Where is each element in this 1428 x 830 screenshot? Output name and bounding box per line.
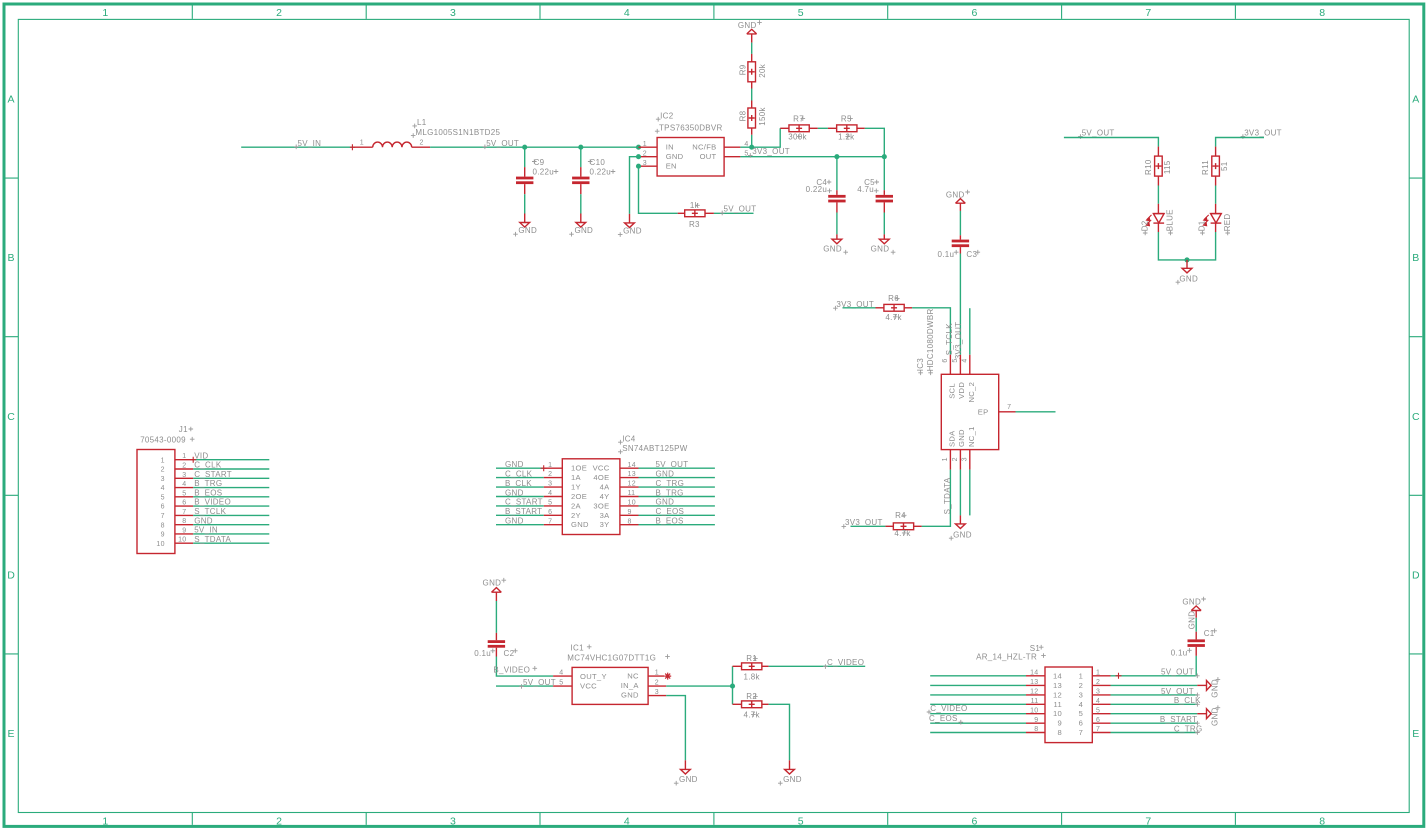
svg-text:6: 6 bbox=[1079, 719, 1084, 728]
svg-text:14: 14 bbox=[1053, 671, 1062, 680]
svg-text:L1: L1 bbox=[417, 118, 427, 127]
svg-text:C: C bbox=[7, 411, 15, 423]
svg-text:4: 4 bbox=[182, 481, 186, 488]
wire D2 to gnd junction bbox=[1158, 232, 1187, 260]
IC4 value SN74ABT125PW bbox=[618, 444, 688, 454]
svg-text:GND: GND bbox=[571, 520, 589, 529]
C4 name label bbox=[816, 178, 831, 187]
R6 value 4.7k bbox=[885, 313, 902, 322]
IC1 value MC74VHC1G07DTT1G bbox=[567, 653, 670, 662]
S1 pin 1 connection cross bbox=[1116, 673, 1122, 679]
svg-text:GND: GND bbox=[621, 691, 639, 700]
svg-text:GND: GND bbox=[1210, 707, 1219, 726]
svg-text:6: 6 bbox=[182, 500, 186, 507]
svg-text:5: 5 bbox=[952, 358, 959, 362]
svg-text:5V_OUT: 5V_OUT bbox=[1082, 128, 1115, 137]
ground below IC3 pin 2 bbox=[949, 515, 972, 540]
wire S1 pin 2 to ground bbox=[1111, 684, 1198, 686]
D2 name label rotated bbox=[1140, 220, 1149, 235]
svg-text:B_EOS: B_EOS bbox=[194, 488, 222, 497]
frame column labels bottom bbox=[102, 815, 1325, 827]
svg-text:1: 1 bbox=[360, 140, 364, 147]
wire S1 left pin 11 bbox=[930, 703, 1026, 705]
svg-text:S_TDATA: S_TDATA bbox=[194, 535, 231, 544]
svg-text:2: 2 bbox=[276, 815, 282, 827]
svg-text:5V_OUT: 5V_OUT bbox=[1161, 687, 1194, 696]
LED D2 bbox=[1146, 204, 1164, 232]
svg-text:0.22u: 0.22u bbox=[533, 168, 555, 177]
ground below IC1 bbox=[674, 760, 698, 785]
svg-text:NC/FB: NC/FB bbox=[692, 143, 716, 152]
svg-text:8: 8 bbox=[182, 518, 186, 525]
resistor R1 1.8k bbox=[733, 663, 769, 670]
wire IC4 left pin 6 net B_START bbox=[496, 514, 544, 516]
IC3 pin numbers top 6 5 4 bbox=[942, 358, 968, 362]
svg-text:1: 1 bbox=[548, 462, 552, 469]
resistor R11 51 bbox=[1212, 147, 1220, 186]
resistor R8 150k bbox=[748, 101, 756, 135]
wire R11 to D1 bbox=[1215, 186, 1217, 204]
node 5V_OUT label top right bbox=[1078, 128, 1115, 139]
wire S1 left pin 14 bbox=[930, 675, 1026, 677]
frame row ticks right bbox=[1409, 178, 1422, 654]
svg-text:7: 7 bbox=[1096, 726, 1100, 733]
junction R8 / IC2 pin4 bbox=[749, 145, 754, 150]
S1 pin stubs left bbox=[1026, 676, 1045, 733]
wire 3V3_OUT to R11 bbox=[1216, 138, 1264, 147]
svg-text:4: 4 bbox=[559, 670, 563, 677]
wire S1 left pin 9 bbox=[930, 722, 1026, 724]
svg-text:VDD: VDD bbox=[957, 382, 966, 399]
svg-text:5: 5 bbox=[798, 815, 804, 827]
C3 name label bbox=[966, 250, 980, 259]
wire 5V_OUT rail bbox=[430, 146, 638, 148]
wire C2 to IC1 (net B_VIDEO) bbox=[496, 657, 553, 677]
svg-text:2: 2 bbox=[161, 467, 165, 474]
svg-text:1: 1 bbox=[643, 141, 647, 148]
svg-text:3: 3 bbox=[643, 160, 647, 167]
svg-text:12: 12 bbox=[1030, 689, 1038, 696]
svg-text:B_VIDEO: B_VIDEO bbox=[194, 498, 231, 507]
svg-text:GND: GND bbox=[946, 190, 965, 199]
svg-text:B_EOS: B_EOS bbox=[656, 517, 684, 526]
svg-text:B_CLK: B_CLK bbox=[505, 479, 532, 488]
svg-text:7: 7 bbox=[548, 518, 552, 525]
svg-text:4: 4 bbox=[548, 490, 552, 497]
svg-text:3: 3 bbox=[655, 689, 659, 696]
svg-text:5: 5 bbox=[798, 7, 804, 19]
capacitor C2 bbox=[488, 633, 505, 657]
connector J1 bbox=[137, 450, 175, 554]
svg-text:4.7u: 4.7u bbox=[857, 185, 874, 194]
svg-text:GND: GND bbox=[574, 226, 593, 235]
net label B_START bbox=[1160, 715, 1200, 725]
IC4 SN74ABT125PW bbox=[562, 459, 620, 535]
svg-text:GND: GND bbox=[505, 488, 524, 497]
wire IC1 GND to ground bbox=[666, 696, 685, 761]
wire 5V_OUT to R10 bbox=[1064, 138, 1159, 147]
svg-text:C1: C1 bbox=[1204, 629, 1215, 638]
svg-text:7: 7 bbox=[1145, 7, 1151, 19]
svg-text:2: 2 bbox=[952, 457, 959, 461]
svg-text:10: 10 bbox=[1030, 707, 1038, 714]
svg-text:9: 9 bbox=[1034, 717, 1038, 724]
wire ground to C3 bbox=[959, 211, 961, 235]
svg-text:C: C bbox=[1412, 411, 1420, 423]
wire IC4 left pin 7 net GND bbox=[496, 524, 544, 526]
wire ground to R9 bbox=[751, 43, 753, 54]
IC4 inside pin names right bbox=[593, 464, 611, 530]
wire IC4 right pin 13 net GND bbox=[639, 477, 715, 479]
svg-text:C_EOS: C_EOS bbox=[656, 507, 685, 516]
svg-text:5V_IN: 5V_IN bbox=[298, 139, 322, 148]
C1 value 0.1u bbox=[1171, 648, 1192, 657]
svg-text:OUT: OUT bbox=[700, 152, 717, 161]
wire IC4 left pin 4 net GND bbox=[496, 496, 544, 498]
svg-text:14: 14 bbox=[628, 462, 636, 469]
svg-text:SDA: SDA bbox=[948, 430, 957, 447]
capacitor C1 bbox=[1188, 632, 1205, 656]
svg-text:3V3_OUT: 3V3_OUT bbox=[752, 147, 790, 156]
junction C5 bbox=[882, 154, 887, 159]
wire S1 left pin 12 bbox=[930, 694, 1026, 696]
svg-text:7: 7 bbox=[182, 509, 186, 516]
ground above C1 bbox=[1182, 597, 1206, 618]
wire S1 left pin 10 bbox=[930, 713, 1026, 715]
wire IC4 left pin 5 net C_START bbox=[496, 505, 544, 507]
wire IC4 right pin 11 net B_TRG bbox=[639, 496, 715, 498]
J1 inside pin names 1-10 bbox=[156, 457, 164, 548]
wire R1 to C_VIDEO bbox=[769, 665, 866, 667]
svg-text:1: 1 bbox=[1079, 671, 1084, 680]
IC3 name label rotated bbox=[916, 358, 925, 375]
svg-text:11: 11 bbox=[628, 490, 636, 497]
svg-text:B: B bbox=[1412, 252, 1419, 264]
svg-text:GND: GND bbox=[623, 227, 642, 236]
svg-text:C2: C2 bbox=[504, 649, 515, 658]
svg-text:4: 4 bbox=[1079, 700, 1084, 709]
svg-text:1: 1 bbox=[655, 670, 659, 677]
net label C_VIDEO at S1 bbox=[927, 704, 968, 715]
svg-text:C3: C3 bbox=[966, 250, 977, 259]
resistor R4 4.7k bbox=[885, 523, 921, 530]
svg-text:B_START: B_START bbox=[505, 507, 542, 516]
resistor R9 20k bbox=[748, 54, 756, 89]
svg-text:B_VIDEO: B_VIDEO bbox=[493, 666, 530, 675]
ground below C9 bbox=[513, 214, 537, 237]
S1 pin numbers left bbox=[1030, 670, 1038, 734]
wire J1 pin 9 net 5V_IN bbox=[193, 533, 269, 535]
svg-text:14: 14 bbox=[1030, 670, 1038, 677]
svg-text:9: 9 bbox=[161, 532, 165, 539]
svg-text:3: 3 bbox=[450, 7, 456, 19]
svg-text:GND: GND bbox=[783, 775, 802, 784]
wire ground to C2 bbox=[495, 601, 497, 633]
frame column ticks top bbox=[192, 6, 1235, 19]
C3 value 0.1u bbox=[938, 250, 959, 259]
svg-text:4: 4 bbox=[624, 7, 630, 19]
svg-text:GND: GND bbox=[679, 775, 698, 784]
svg-text:1: 1 bbox=[1096, 670, 1100, 677]
svg-text:GND: GND bbox=[505, 517, 524, 526]
wire C3 to IC3 VDD (net 3V3_OUT) bbox=[959, 254, 961, 355]
svg-text:1: 1 bbox=[182, 453, 186, 460]
net label 5V_OUT at S1 pin3 bbox=[1161, 687, 1200, 697]
IC4 pin 1 connection cross bbox=[541, 465, 547, 471]
wire IC4 right pin 9 net C_EOS bbox=[639, 514, 715, 516]
svg-text:12: 12 bbox=[628, 481, 636, 488]
svg-text:11: 11 bbox=[1031, 698, 1039, 705]
J1 name label bbox=[179, 425, 193, 434]
wire C1 to S1 pin 1 (net 5V_OUT) bbox=[1195, 656, 1197, 676]
svg-text:C_START: C_START bbox=[505, 498, 543, 507]
wire J1 pin 2 net C_CLK bbox=[193, 468, 269, 470]
capacitor C4 bbox=[828, 157, 845, 213]
svg-text:4Y: 4Y bbox=[600, 492, 610, 501]
svg-text:7: 7 bbox=[1145, 815, 1151, 827]
svg-text:3: 3 bbox=[548, 481, 552, 488]
wire R7 to R5 bbox=[818, 127, 828, 129]
wire IC1 output to R1/R2 junction bbox=[666, 685, 732, 687]
wire junction to R1 bbox=[732, 666, 734, 686]
wire C10 to ground bbox=[580, 194, 582, 213]
L1 value MLG1005S1N1BTD25 bbox=[411, 128, 501, 138]
svg-text:2: 2 bbox=[643, 150, 647, 157]
svg-text:IN_A: IN_A bbox=[621, 681, 640, 690]
wire R5 to 3V3_OUT rail bbox=[865, 128, 885, 156]
svg-text:6: 6 bbox=[1096, 717, 1100, 724]
IC4 inside pin names left bbox=[571, 464, 589, 530]
svg-text:3: 3 bbox=[161, 476, 165, 483]
svg-text:1: 1 bbox=[161, 457, 165, 464]
node B_VIDEO label bbox=[493, 666, 537, 675]
net label 5V_OUT at S1 pin1 bbox=[1161, 668, 1200, 679]
C2 name label bbox=[504, 649, 518, 658]
svg-text:GND: GND bbox=[194, 516, 213, 525]
svg-text:8: 8 bbox=[1319, 7, 1325, 19]
svg-text:13: 13 bbox=[1053, 681, 1062, 690]
svg-text:4OE: 4OE bbox=[593, 473, 609, 482]
svg-text:A: A bbox=[1412, 94, 1419, 106]
svg-text:D2: D2 bbox=[1140, 220, 1149, 231]
svg-text:4.7k: 4.7k bbox=[885, 313, 902, 322]
svg-text:9: 9 bbox=[182, 527, 186, 534]
svg-text:EN: EN bbox=[666, 162, 677, 171]
svg-text:GND: GND bbox=[957, 429, 966, 447]
resistor R10 115 bbox=[1155, 147, 1163, 186]
wire J1 pin 7 net S_TCLK bbox=[193, 514, 269, 516]
resistor R3 1k bbox=[678, 210, 714, 217]
svg-text:70543-0009: 70543-0009 bbox=[140, 435, 186, 444]
svg-text:E: E bbox=[8, 728, 15, 740]
R2 name label bbox=[746, 692, 757, 701]
wire R3 to 5V_OUT bbox=[714, 212, 754, 214]
node 3V3_OUT label at R6 bbox=[833, 300, 874, 311]
svg-text:C_TRG: C_TRG bbox=[656, 479, 685, 488]
svg-text:2: 2 bbox=[548, 471, 552, 478]
wire D1 to gnd junction bbox=[1187, 232, 1216, 260]
wire IC4 right pin 14 net 5V_OUT bbox=[639, 467, 715, 469]
net label C_TRG bbox=[1174, 724, 1203, 734]
wire J1 pin 10 net S_TDATA bbox=[193, 542, 269, 544]
svg-text:GND: GND bbox=[871, 244, 890, 253]
svg-text:4: 4 bbox=[1096, 698, 1100, 705]
svg-text:4: 4 bbox=[624, 815, 630, 827]
svg-text:MLG1005S1N1BTD25: MLG1005S1N1BTD25 bbox=[415, 128, 500, 137]
svg-text:1OE: 1OE bbox=[571, 464, 587, 473]
frame column labels top bbox=[102, 7, 1325, 19]
svg-text:5: 5 bbox=[182, 490, 186, 497]
svg-text:RED: RED bbox=[1223, 214, 1232, 232]
wire junction to R2 bbox=[732, 686, 734, 704]
wire R2 to ground bbox=[769, 704, 790, 760]
R5 name label bbox=[841, 114, 853, 123]
wire J1 pin 6 net B_VIDEO bbox=[193, 505, 269, 507]
ground below C5 bbox=[871, 234, 896, 254]
svg-text:GND: GND bbox=[1188, 611, 1197, 630]
junction bbox=[522, 145, 527, 150]
resistor R2 4.7k bbox=[733, 701, 769, 708]
ground below R2 bbox=[778, 760, 802, 785]
svg-text:D1: D1 bbox=[1198, 220, 1207, 231]
C10 name label bbox=[588, 158, 605, 167]
wire 5V_OUT to IC1 bbox=[496, 685, 553, 687]
wire C5 to ground bbox=[883, 213, 885, 235]
J1 pin stubs bbox=[175, 460, 193, 544]
wire IC4 right pin 8 net B_EOS bbox=[639, 524, 715, 526]
svg-text:13: 13 bbox=[628, 471, 636, 478]
svg-text:5: 5 bbox=[161, 494, 165, 501]
svg-text:1: 1 bbox=[942, 457, 949, 461]
svg-text:4.7k: 4.7k bbox=[894, 529, 911, 538]
svg-text:3: 3 bbox=[1096, 689, 1100, 696]
S1 value AR_14_HZL-TR bbox=[976, 652, 1046, 661]
IC4 pin numbers left 1-7 bbox=[548, 462, 552, 526]
IC3 value HDC1080DWBR rotated bbox=[926, 308, 935, 375]
R3 value 1k bbox=[690, 201, 700, 210]
svg-text:C_CLK: C_CLK bbox=[505, 469, 533, 478]
IC4 pin numbers right 14-8 bbox=[628, 462, 636, 526]
svg-text:5V_OUT: 5V_OUT bbox=[486, 139, 519, 148]
ground below IC2 pin 2 bbox=[618, 214, 642, 237]
svg-text:2A: 2A bbox=[571, 501, 582, 510]
svg-text:3: 3 bbox=[961, 457, 968, 461]
node 3V3_OUT label at R4 bbox=[842, 518, 883, 529]
svg-text:8: 8 bbox=[161, 522, 165, 529]
svg-text:51: 51 bbox=[1220, 161, 1229, 171]
svg-text:D: D bbox=[1412, 569, 1420, 581]
svg-text:9: 9 bbox=[628, 509, 632, 516]
svg-text:2: 2 bbox=[419, 140, 423, 147]
connector S1 AR_14_HZL-TR bbox=[1045, 667, 1092, 743]
J1 pin 1 connection cross bbox=[190, 457, 196, 463]
svg-text:3A: 3A bbox=[600, 511, 611, 520]
svg-text:A: A bbox=[8, 94, 15, 106]
svg-text:0.1u: 0.1u bbox=[474, 649, 491, 658]
frame row labels left bbox=[7, 94, 15, 740]
L1 name label bbox=[412, 118, 426, 128]
svg-text:OUT_Y: OUT_Y bbox=[580, 672, 607, 681]
svg-text:115: 115 bbox=[1163, 160, 1172, 174]
svg-text:6: 6 bbox=[972, 815, 978, 827]
svg-text:R8: R8 bbox=[738, 110, 747, 121]
svg-text:3V3_OUT: 3V3_OUT bbox=[954, 322, 963, 360]
junction IC1 out bbox=[730, 684, 735, 689]
resistor R6 4.7k bbox=[876, 304, 913, 311]
wire S1 pin 3 net 5V_OUT bbox=[1111, 694, 1198, 696]
wire S1 pin 7 net C_TRG bbox=[1111, 732, 1198, 734]
svg-text:2: 2 bbox=[182, 463, 186, 470]
ground below C4 bbox=[823, 234, 848, 254]
wire S1 pin 4 net B_CLK bbox=[1111, 703, 1198, 705]
svg-text:C_CLK: C_CLK bbox=[194, 461, 222, 470]
svg-text:5: 5 bbox=[1079, 709, 1084, 718]
svg-text:13: 13 bbox=[1030, 679, 1038, 686]
svg-text:1: 1 bbox=[102, 815, 108, 827]
svg-text:0.22u: 0.22u bbox=[590, 168, 612, 177]
wire IC4 left pin 3 net B_CLK bbox=[496, 486, 544, 488]
wire IC2 GND pin to ground bbox=[630, 157, 639, 214]
ground below C10 bbox=[569, 214, 593, 237]
wire EN to R3 bbox=[639, 166, 678, 213]
svg-text:NC_2: NC_2 bbox=[967, 382, 976, 403]
junction IC2 pin 2 bbox=[636, 154, 641, 159]
svg-text:6: 6 bbox=[972, 7, 978, 19]
IC2 pin numbers left bbox=[643, 141, 647, 167]
wire R8 to IC2 pin 4 junction bbox=[751, 135, 753, 147]
junction at IC2 pin 1 bbox=[636, 145, 641, 150]
R4 name label bbox=[895, 511, 906, 520]
svg-text:3: 3 bbox=[182, 472, 186, 479]
ground above C2 bbox=[483, 578, 507, 601]
svg-text:5V_OUT: 5V_OUT bbox=[1161, 668, 1194, 677]
svg-text:6: 6 bbox=[161, 504, 165, 511]
svg-text:5: 5 bbox=[548, 500, 552, 507]
svg-text:S_TDATA: S_TDATA bbox=[943, 477, 952, 514]
svg-text:HDC1080DWBR: HDC1080DWBR bbox=[926, 308, 935, 371]
op-amp/regulator IC2 TPS76350DBVR bbox=[639, 138, 741, 177]
net 5V_IN wire bbox=[241, 146, 352, 148]
svg-text:3: 3 bbox=[450, 815, 456, 827]
J1 pin numbers bbox=[178, 453, 186, 544]
svg-text:NC_1: NC_1 bbox=[967, 426, 976, 447]
wire J1 pin 1 net VID bbox=[193, 459, 269, 461]
junction C4 bbox=[834, 154, 839, 159]
svg-text:3OE: 3OE bbox=[593, 501, 609, 510]
svg-text:2: 2 bbox=[276, 7, 282, 19]
svg-text:S_TCLK: S_TCLK bbox=[945, 323, 954, 355]
svg-text:1.8k: 1.8k bbox=[744, 672, 761, 681]
IC1 NC marker bbox=[664, 673, 671, 680]
svg-text:5V_IN: 5V_IN bbox=[194, 526, 218, 535]
svg-text:4: 4 bbox=[161, 485, 165, 492]
svg-text:0.1u: 0.1u bbox=[938, 250, 955, 259]
svg-text:R11: R11 bbox=[1201, 160, 1210, 175]
resistor R7 300k bbox=[780, 125, 818, 132]
wire stub IC3 pin 4 bbox=[969, 308, 971, 355]
wire R10 to D2 bbox=[1157, 186, 1159, 204]
svg-text:GND: GND bbox=[1210, 679, 1219, 698]
LED D1 bbox=[1203, 204, 1221, 232]
svg-text:0.1u: 0.1u bbox=[1171, 648, 1188, 657]
svg-text:6: 6 bbox=[548, 509, 552, 516]
C9 value 0.22u bbox=[533, 168, 559, 177]
wire IC4 left pin 2 net C_CLK bbox=[496, 477, 544, 479]
wire pin4 to R7 bbox=[740, 128, 780, 147]
svg-text:7: 7 bbox=[161, 513, 165, 520]
svg-text:GND: GND bbox=[1182, 597, 1201, 606]
C9 name label bbox=[532, 158, 545, 167]
